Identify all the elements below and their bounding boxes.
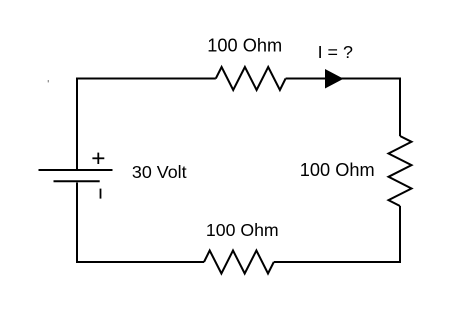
wire left side lower: [76, 183, 78, 264]
battery plus terminal mark: [92, 153, 104, 164]
wire bottom-right segment: [274, 261, 400, 263]
wire top-right segment: [286, 78, 400, 80]
wire left side upper: [76, 78, 78, 171]
wire top-left segment: [77, 78, 216, 80]
wire right side upper: [399, 78, 401, 137]
svg-text:I = ?: I = ?: [318, 42, 353, 62]
stray ink dot near node A: [48, 80, 49, 82]
resistor R1 (top): [216, 67, 286, 90]
svg-text:100 Ohm: 100 Ohm: [206, 220, 279, 240]
resistor R2 (right): [389, 136, 412, 206]
resistor R3 (bottom): [204, 251, 274, 274]
battery V1 (30 Volt source): [39, 170, 113, 181]
wire bottom-left segment: [77, 261, 204, 263]
svg-text:100 Ohm: 100 Ohm: [300, 160, 375, 180]
battery minus terminal mark: [100, 189, 102, 199]
wire right side lower: [399, 206, 401, 263]
svg-text:30 Volt: 30 Volt: [132, 162, 187, 182]
svg-text:100 Ohm: 100 Ohm: [207, 36, 282, 56]
current direction arrow: [325, 69, 344, 89]
